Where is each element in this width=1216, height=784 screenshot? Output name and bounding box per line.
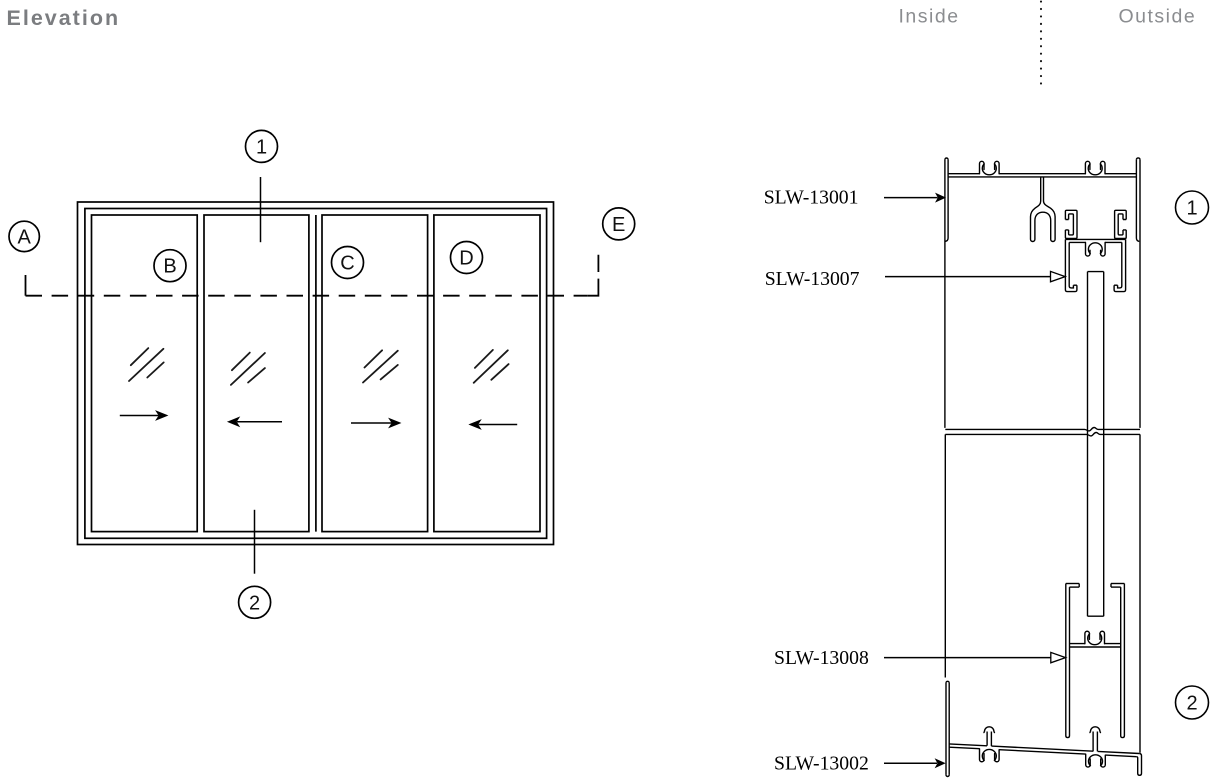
riser below bubble A <box>25 275 27 296</box>
svg-text:SLW-13007: SLW-13007 <box>765 268 860 290</box>
head profile right wall <box>1136 158 1140 428</box>
lower view right cut line <box>1139 434 1141 752</box>
svg-text:C: C <box>340 253 354 275</box>
sash panel 2 <box>204 215 309 532</box>
bubble 1 elevation <box>246 130 278 162</box>
sash panel D <box>434 215 540 532</box>
slide arrow panel B <box>120 412 167 420</box>
bubble D <box>451 242 483 274</box>
window outer frame <box>78 202 554 545</box>
svg-text:A: A <box>18 226 32 248</box>
head profile guide hook left <box>1065 210 1077 238</box>
svg-text:Elevation: Elevation <box>7 6 121 30</box>
glass unit bottom edge <box>1088 615 1104 617</box>
sash bottom rail screw boss <box>1085 631 1105 644</box>
bubble C <box>332 247 364 279</box>
slide arrow panel 2 <box>229 418 282 426</box>
bubble 1 section <box>1176 191 1209 224</box>
svg-text:Inside: Inside <box>899 6 960 28</box>
bubble E <box>603 208 635 240</box>
glass unit right line <box>1103 272 1105 617</box>
svg-text:1: 1 <box>1186 198 1197 220</box>
glass hatch panel B <box>129 348 164 381</box>
bubble A <box>9 221 39 251</box>
center meeting stile line <box>315 215 317 532</box>
glass hatch panel D <box>474 350 509 383</box>
head profile center glazing fork <box>1031 177 1056 242</box>
head profile screw boss left <box>980 161 1000 174</box>
leader arrow SLW-13002 <box>884 759 944 767</box>
svg-text:SLW-13002: SLW-13002 <box>774 752 869 774</box>
sill screw boss right <box>1086 754 1106 767</box>
sash bottom rail web <box>1070 644 1121 647</box>
svg-text:2: 2 <box>249 592 260 614</box>
sill anchor fin left <box>983 727 995 746</box>
bubble 2 section <box>1176 686 1209 719</box>
leader to bubble 1 <box>260 177 262 242</box>
dashed riser below bubble E <box>587 255 598 296</box>
inside/outside dotted divider <box>1040 2 1042 91</box>
svg-text:2: 2 <box>1186 693 1197 715</box>
svg-text:B: B <box>163 256 176 278</box>
bubble 2 elevation <box>239 586 271 618</box>
slide arrow panel D <box>470 421 517 429</box>
sash panel C <box>322 215 428 532</box>
svg-text:SLW-13001: SLW-13001 <box>764 186 859 208</box>
svg-text:D: D <box>459 248 473 270</box>
leader arrow SLW-13008 <box>884 652 1066 662</box>
leader to bubble 2 <box>254 510 256 574</box>
glass unit top edge <box>1088 271 1104 273</box>
head profile SLW-13001 top web <box>948 174 1136 177</box>
head profile guide hook right <box>1115 210 1127 238</box>
sill SLW-13002 left upstand <box>946 681 949 776</box>
section cut dashed line A-E <box>26 295 588 297</box>
window inner frame line <box>85 209 547 539</box>
sill screw boss left <box>980 749 1000 762</box>
sash bottom rail SLW-13008 <box>1066 584 1079 738</box>
svg-text:Outside: Outside <box>1119 6 1197 28</box>
sash top rail SLW-13007 <box>1065 239 1125 291</box>
leader arrow SLW-13007 <box>885 271 1065 281</box>
glass unit left line <box>1087 272 1089 617</box>
sash top rail screw boss <box>1086 243 1106 257</box>
svg-text:1: 1 <box>256 136 267 158</box>
leader arrow SLW-13001 <box>884 194 945 202</box>
head profile screw boss right <box>1085 161 1105 174</box>
slide arrow panel C <box>351 419 399 427</box>
svg-text:SLW-13008: SLW-13008 <box>774 647 869 669</box>
glass hatch panel C <box>363 350 398 382</box>
sash panel B <box>92 215 198 532</box>
lower view left cut line <box>944 434 946 677</box>
sill anchor fin right <box>1089 727 1101 752</box>
svg-text:E: E <box>612 214 625 236</box>
head profile SLW-13001 left wall <box>945 158 948 428</box>
view break upper line <box>945 428 1140 431</box>
view break lower line <box>945 433 1140 436</box>
glass hatch panel 2 <box>231 353 265 385</box>
bubble B <box>154 250 186 282</box>
sill SLW-13002 deck <box>949 744 1142 775</box>
